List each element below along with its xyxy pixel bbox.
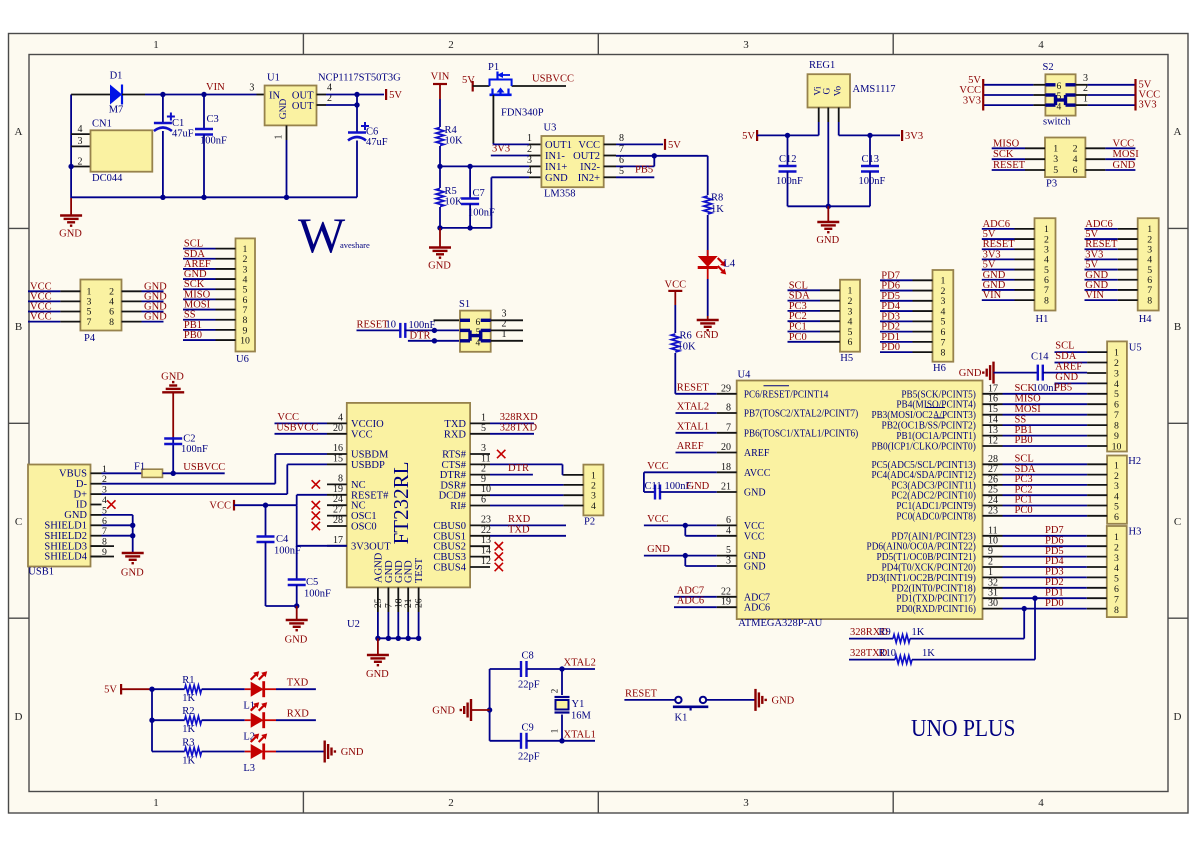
resistor R8 1K [707, 156, 709, 195]
header P4 [80, 280, 121, 331]
svg-text:328TXD: 328TXD [500, 422, 538, 433]
wire [1003, 608, 1087, 610]
svg-text:CN1: CN1 [92, 119, 112, 130]
svg-text:11: 11 [988, 525, 998, 536]
svg-text:K1: K1 [675, 713, 688, 724]
svg-text:IN2-: IN2- [580, 162, 600, 173]
wire [266, 605, 297, 607]
resistor R3 1K [152, 751, 185, 753]
svg-text:U1: U1 [267, 73, 280, 84]
svg-text:D: D [1174, 711, 1182, 723]
svg-text:SDA: SDA [1055, 351, 1076, 362]
svg-text:2: 2 [1073, 143, 1078, 154]
wire [880, 279, 913, 281]
capacitor C6 [356, 105, 358, 133]
wire [183, 309, 216, 311]
svg-text:VIN: VIN [983, 290, 1002, 301]
frame row ticks [9, 227, 30, 229]
wire [183, 339, 216, 341]
svg-text:8: 8 [619, 133, 624, 144]
node USBVCC [275, 433, 328, 435]
wire [994, 372, 1038, 374]
svg-text:5V: 5V [742, 131, 755, 142]
svg-text:IN2+: IN2+ [578, 173, 600, 184]
wire [1076, 94, 1088, 96]
svg-text:24: 24 [333, 494, 343, 505]
svg-text:10: 10 [386, 320, 397, 331]
svg-text:4: 4 [527, 166, 532, 177]
wire [1003, 484, 1088, 486]
svg-text:AREF: AREF [744, 448, 770, 459]
svg-text:Y1: Y1 [572, 699, 585, 710]
svg-text:R4: R4 [445, 125, 458, 136]
svg-text:CBUS3: CBUS3 [433, 552, 466, 563]
svg-text:5V: 5V [104, 685, 117, 696]
svg-text:VIN: VIN [1085, 290, 1104, 301]
svg-text:6: 6 [481, 495, 486, 506]
svg-text:AREF: AREF [677, 441, 704, 452]
svg-text:XTAL2: XTAL2 [677, 402, 709, 413]
svg-text:D1: D1 [110, 71, 123, 82]
wire [1003, 566, 1087, 568]
svg-text:PB0: PB0 [1015, 435, 1033, 446]
LED L4 [707, 250, 709, 256]
svg-text:Vo: Vo [834, 86, 844, 97]
header H1 [1035, 218, 1056, 310]
svg-text:A: A [1174, 126, 1182, 138]
svg-text:PD5: PD5 [1045, 546, 1064, 557]
svg-text:5V: 5V [668, 140, 681, 151]
svg-text:C9: C9 [522, 723, 534, 734]
node SCL [1055, 351, 1088, 353]
svg-text:H5: H5 [840, 353, 853, 364]
svg-text:23: 23 [481, 514, 491, 525]
resistor R1 1K [152, 688, 185, 690]
wire [1003, 474, 1088, 476]
svg-text:aveshare: aveshare [340, 240, 370, 250]
svg-text:1: 1 [1053, 143, 1058, 154]
svg-text:3: 3 [1114, 368, 1119, 379]
svg-text:PC0(ADC0/PCINT8): PC0(ADC0/PCINT8) [896, 511, 976, 522]
svg-text:VBUS: VBUS [59, 469, 87, 480]
svg-text:31: 31 [988, 588, 998, 599]
header H6 [933, 270, 954, 362]
svg-text:U3: U3 [544, 123, 557, 134]
wire [1003, 587, 1087, 589]
svg-text:RESET: RESET [625, 688, 658, 699]
svg-text:W: W [298, 207, 346, 263]
svg-text:47uF: 47uF [172, 129, 194, 140]
svg-text:GND: GND [285, 635, 308, 646]
ground [172, 392, 174, 437]
svg-text:328RXD: 328RXD [500, 412, 538, 423]
no-connect ID [107, 500, 115, 508]
wire [1003, 414, 1088, 416]
svg-text:M7: M7 [109, 105, 124, 116]
wire [1085, 279, 1118, 281]
svg-text:5: 5 [726, 545, 731, 556]
wire [491, 319, 523, 321]
svg-text:30: 30 [988, 598, 998, 609]
switch S2 [1045, 74, 1075, 115]
svg-text:10K: 10K [445, 197, 464, 208]
switch S2 contacts [1045, 83, 1055, 86]
wire [183, 298, 216, 300]
svg-text:1K: 1K [711, 204, 724, 215]
svg-text:CBUS4: CBUS4 [433, 563, 466, 574]
svg-text:U2: U2 [347, 619, 360, 630]
wire [616, 143, 663, 145]
wire [183, 319, 216, 321]
svg-text:ID: ID [76, 500, 87, 511]
svg-text:3: 3 [481, 443, 486, 454]
wire [28, 311, 60, 313]
wire [1085, 299, 1118, 301]
wire [982, 269, 1015, 271]
svg-text:100nF: 100nF [200, 136, 227, 147]
svg-text:VCC: VCC [351, 429, 373, 440]
svg-text:VCC: VCC [647, 461, 669, 472]
svg-text:4: 4 [327, 83, 332, 94]
wire [70, 95, 72, 199]
svg-text:1K: 1K [182, 724, 195, 735]
capacitor C1 [162, 95, 164, 124]
wire [28, 321, 60, 323]
LED L1 [245, 688, 251, 690]
svg-text:C12: C12 [779, 154, 797, 165]
svg-text:PB0: PB0 [184, 330, 202, 341]
svg-text:OUT1: OUT1 [545, 140, 572, 151]
svg-text:6: 6 [476, 318, 481, 328]
svg-text:U5: U5 [1129, 343, 1142, 354]
svg-text:1: 1 [153, 39, 159, 51]
svg-text:6: 6 [1057, 82, 1062, 92]
wire [1003, 545, 1087, 547]
svg-text:PB3(MOSI/OC2A/PCINT3): PB3(MOSI/OC2A/PCINT3) [872, 410, 976, 421]
ground [122, 552, 144, 554]
wire [1085, 228, 1118, 230]
wire 3V3OUT [327, 545, 347, 547]
svg-text:6: 6 [1114, 584, 1119, 595]
svg-text:R9: R9 [879, 627, 891, 638]
svg-text:25: 25 [374, 598, 384, 608]
svg-text:G: G [823, 87, 833, 94]
svg-text:1: 1 [1083, 93, 1088, 104]
svg-text:switch: switch [1043, 117, 1071, 128]
svg-text:3: 3 [743, 797, 749, 809]
svg-text:XTAL1: XTAL1 [564, 729, 596, 740]
wire [357, 329, 401, 331]
svg-text:9: 9 [988, 546, 993, 557]
svg-text:2: 2 [1114, 358, 1119, 369]
svg-text:H6: H6 [933, 363, 946, 374]
svg-text:3V3: 3V3 [905, 131, 923, 142]
svg-text:GND: GND [121, 568, 144, 579]
svg-text:PD1: PD1 [1045, 587, 1064, 598]
svg-text:3: 3 [249, 83, 254, 94]
wire [880, 290, 913, 292]
svg-text:19: 19 [333, 484, 343, 495]
svg-text:VCCIO: VCCIO [351, 419, 384, 430]
svg-text:TEST: TEST [414, 557, 425, 583]
svg-text:8: 8 [338, 473, 343, 484]
wire [1003, 463, 1088, 465]
node USBVCC [163, 472, 225, 474]
svg-text:C14: C14 [1031, 352, 1049, 363]
wire [1085, 147, 1105, 149]
svg-text:GND: GND [545, 173, 568, 184]
svg-text:15: 15 [333, 453, 343, 464]
svg-text:100nF: 100nF [859, 176, 886, 187]
svg-text:FDN340P: FDN340P [501, 108, 544, 119]
regulator REG1 AMS1117 [808, 74, 851, 107]
wire [183, 278, 216, 280]
wire [1003, 393, 1088, 395]
svg-text:USBVCC: USBVCC [532, 74, 574, 85]
svg-text:RESET: RESET [993, 160, 1026, 171]
svg-text:L1: L1 [243, 701, 255, 712]
no-connect CBUS2-4 [495, 542, 503, 550]
wire [183, 288, 216, 290]
svg-text:5V: 5V [389, 90, 402, 101]
svg-text:29: 29 [721, 383, 731, 394]
svg-text:ATMEGA328P-AU: ATMEGA328P-AU [738, 618, 822, 629]
svg-text:PB1: PB1 [1015, 425, 1033, 436]
no-connect RTS# [497, 450, 505, 458]
svg-text:VCC: VCC [665, 280, 687, 291]
svg-text:GND: GND [59, 229, 82, 240]
wire [1034, 598, 1036, 659]
wire [982, 279, 1015, 281]
svg-text:GND: GND [687, 481, 710, 492]
svg-text:4: 4 [338, 412, 343, 423]
svg-text:PD6: PD6 [1045, 535, 1064, 546]
svg-text:C7: C7 [473, 188, 485, 199]
svg-text:R5: R5 [445, 186, 457, 197]
svg-text:20: 20 [333, 423, 343, 434]
wire [982, 248, 1015, 250]
svg-text:12: 12 [988, 436, 998, 447]
svg-text:10: 10 [240, 335, 250, 346]
svg-text:OUT: OUT [292, 91, 314, 102]
svg-text:8: 8 [941, 348, 946, 359]
wire [276, 751, 325, 753]
svg-text:PD0: PD0 [1045, 598, 1064, 609]
svg-text:8: 8 [1114, 421, 1119, 432]
svg-text:PB1(OC1A/PCINT1): PB1(OC1A/PCINT1) [896, 431, 976, 442]
svg-text:USBVCC: USBVCC [183, 462, 225, 473]
svg-text:USBDM: USBDM [351, 450, 389, 461]
svg-text:3: 3 [743, 39, 749, 51]
svg-text:28: 28 [333, 515, 343, 526]
svg-text:CBUS2: CBUS2 [433, 542, 466, 553]
svg-text:32: 32 [988, 577, 998, 588]
svg-text:SHIELD1: SHIELD1 [44, 521, 87, 532]
power 3V3 [901, 130, 903, 141]
svg-text:22pF: 22pF [518, 752, 540, 763]
svg-text:2: 2 [502, 319, 507, 330]
svg-text:CBUS1: CBUS1 [433, 531, 466, 542]
svg-text:PD1(TXD/PCINT17): PD1(TXD/PCINT17) [896, 594, 976, 605]
wire [28, 290, 60, 292]
svg-text:PD0(RXD/PCINT16): PD0(RXD/PCINT16) [896, 604, 976, 615]
resistor R4 10K [439, 99, 441, 127]
svg-text:PD4(T0/XCK/PCINT20): PD4(T0/XCK/PCINT20) [881, 563, 975, 574]
svg-text:2: 2 [448, 797, 454, 809]
capacitor C9 22pF [490, 740, 521, 742]
svg-text:NC: NC [351, 501, 366, 512]
svg-text:GND: GND [696, 330, 719, 341]
wire [71, 94, 110, 96]
svg-text:23: 23 [988, 505, 998, 516]
wire [1003, 494, 1088, 496]
wire [788, 320, 821, 322]
resistor R6 10K [674, 305, 676, 333]
svg-text:SHIELD4: SHIELD4 [44, 552, 87, 563]
svg-text:S1: S1 [459, 299, 470, 310]
svg-text:C5: C5 [306, 577, 318, 588]
svg-text:GND: GND [959, 368, 982, 379]
wire [1003, 435, 1088, 437]
wire [880, 351, 913, 353]
svg-text:R10: R10 [879, 648, 897, 659]
svg-text:12: 12 [481, 556, 491, 567]
svg-text:4: 4 [591, 501, 596, 512]
svg-text:OSC0: OSC0 [351, 522, 377, 533]
wire [145, 94, 257, 96]
svg-text:GND: GND [279, 99, 289, 120]
svg-text:4: 4 [1038, 39, 1044, 51]
svg-text:PB2(OC1B/SS/PCINT2): PB2(OC1B/SS/PCINT2) [881, 421, 975, 432]
svg-text:5: 5 [1114, 574, 1119, 585]
svg-text:USBVCC: USBVCC [276, 422, 318, 433]
wire [489, 669, 491, 741]
wire [122, 290, 142, 292]
wire [983, 104, 1033, 106]
svg-text:TXD: TXD [444, 419, 466, 430]
svg-text:MISO: MISO [993, 138, 1020, 149]
wire [326, 104, 357, 106]
svg-text:6: 6 [848, 337, 853, 348]
ground [377, 638, 379, 655]
op-amp U3 LM358 [529, 143, 541, 145]
svg-text:PB0(ICP1/CLKO/PCINT0): PB0(ICP1/CLKO/PCINT0) [872, 442, 976, 453]
svg-text:1: 1 [481, 412, 486, 423]
wire [1085, 248, 1118, 250]
svg-text:PB5: PB5 [1054, 382, 1072, 393]
wire [707, 267, 709, 279]
svg-text:SS: SS [1015, 414, 1027, 425]
node RXD [490, 524, 566, 526]
svg-text:PD0: PD0 [881, 342, 900, 353]
svg-text:RTS#: RTS# [442, 450, 467, 461]
wire [838, 122, 840, 135]
header H5 [840, 280, 860, 352]
svg-text:OUT: OUT [292, 101, 314, 112]
svg-text:PD5(T1/OC0B/PCINT21): PD5(T1/OC0B/PCINT21) [877, 552, 976, 563]
wire junction [354, 92, 359, 97]
wire [1085, 289, 1118, 291]
svg-text:GND: GND [1055, 372, 1078, 383]
svg-text:AVCC: AVCC [744, 468, 771, 479]
svg-text:GND: GND [744, 562, 766, 573]
wire [151, 689, 153, 751]
svg-text:ADC6: ADC6 [677, 596, 704, 607]
svg-text:RXD: RXD [444, 429, 467, 440]
wire [122, 321, 142, 323]
svg-text:C2: C2 [183, 434, 195, 445]
svg-text:17: 17 [988, 383, 998, 394]
fuse F1 [102, 472, 143, 474]
wire junction [160, 92, 165, 97]
push button K1 [675, 697, 681, 703]
wire [880, 331, 913, 333]
svg-text:L3: L3 [243, 763, 255, 774]
wire [122, 300, 142, 302]
svg-text:FT232RL: FT232RL [389, 462, 413, 545]
svg-text:GND: GND [341, 747, 364, 758]
svg-text:U4: U4 [738, 370, 752, 381]
wire [28, 300, 60, 302]
svg-text:6: 6 [726, 515, 731, 526]
svg-text:R6: R6 [680, 331, 692, 342]
svg-text:P1: P1 [488, 62, 499, 73]
svg-text:TXD: TXD [287, 678, 309, 689]
svg-text:MOSI: MOSI [1113, 149, 1140, 160]
svg-text:PD2(INT0/PCINT18): PD2(INT0/PCINT18) [891, 583, 975, 594]
ground [992, 362, 994, 384]
wire [1003, 445, 1088, 447]
svg-text:3: 3 [1114, 553, 1119, 564]
wire [183, 258, 216, 260]
svg-text:8: 8 [1147, 295, 1152, 306]
capacitor C13 [869, 135, 871, 166]
wire [788, 331, 821, 333]
svg-text:MOSI: MOSI [1015, 404, 1042, 415]
svg-text:1: 1 [274, 135, 285, 140]
svg-text:L4: L4 [724, 259, 736, 270]
wire D- to USBDM [102, 483, 276, 485]
svg-text:4: 4 [1057, 102, 1062, 112]
svg-text:SCK: SCK [1015, 383, 1036, 394]
svg-text:9: 9 [1114, 431, 1119, 442]
svg-text:GND: GND [432, 706, 455, 717]
wire [1003, 597, 1087, 599]
wire RESET# to VCC [296, 495, 298, 505]
svg-text:RXD: RXD [287, 709, 310, 720]
svg-text:4: 4 [1114, 563, 1119, 574]
svg-text:3: 3 [1053, 154, 1058, 165]
svg-text:A: A [15, 126, 23, 138]
svg-text:100nF: 100nF [304, 589, 331, 600]
svg-text:1: 1 [153, 797, 159, 809]
header U5 [1107, 341, 1127, 451]
svg-text:DC044: DC044 [92, 173, 123, 184]
svg-text:H1: H1 [1036, 314, 1049, 325]
capacitor C8 22pF [490, 668, 521, 670]
svg-text:10K: 10K [445, 136, 464, 147]
svg-text:UNO PLUS: UNO PLUS [911, 716, 1016, 742]
wire RI to P2.4 [490, 505, 563, 507]
capacitor C10 100nF [399, 323, 401, 338]
svg-text:C: C [1174, 516, 1181, 528]
node SDA [1055, 362, 1088, 364]
wire [992, 169, 1025, 171]
svg-text:PD3: PD3 [1045, 567, 1064, 578]
svg-text:6: 6 [1073, 165, 1078, 176]
wire [1003, 424, 1088, 426]
svg-text:C8: C8 [522, 651, 534, 662]
